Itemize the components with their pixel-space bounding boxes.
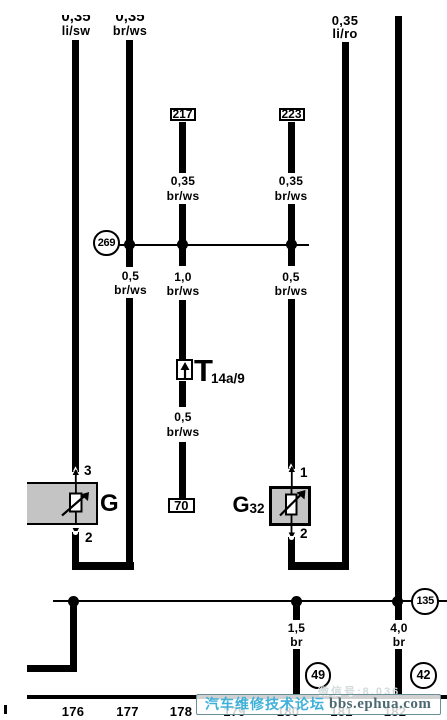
wire W1 li/sw vertical — [72, 40, 79, 472]
G32 pin 2 notch — [289, 536, 295, 541]
wire label 4,0 br — [373, 621, 425, 650]
terminal box 70 — [168, 498, 195, 513]
wire label 0,35 br/ws (W3) — [157, 174, 209, 203]
junction dot 1,5 br — [291, 596, 302, 607]
G32 pin 2 wire — [288, 537, 295, 570]
junction dot left — [68, 596, 79, 607]
G32 rheostat symbol — [271, 484, 313, 540]
wire label 0,5 br/ws (W4) — [265, 270, 317, 299]
G pin number 2 — [85, 531, 93, 545]
G pin 2 notch — [73, 531, 79, 536]
track number 179 — [215, 705, 255, 718]
G32 loop bottom bar — [288, 562, 349, 570]
wire W6 vertical upper — [395, 16, 402, 620]
track number 177 — [108, 705, 148, 718]
wire label 1,0 br/ws (W3) — [157, 270, 209, 299]
G32: pin 1 notch on W4 — [288, 463, 293, 468]
wire label 0,35 br/ws (W4) — [265, 174, 317, 203]
G pin 3 line+arrow — [70, 466, 82, 484]
wire W3 seg to T symbol — [179, 300, 186, 359]
wire W4 seg down to G32 pin 1 — [288, 299, 295, 469]
wire label 0,5 br/ws (below T) — [157, 410, 209, 439]
wire label 1,5 br — [271, 621, 323, 650]
L wire vertical — [70, 601, 77, 672]
track number 181 — [322, 705, 362, 718]
node circle 135 — [411, 588, 439, 616]
node circle 49 — [305, 662, 332, 689]
G32 pin number 2 — [300, 527, 308, 541]
junction dot 4,0 br — [392, 596, 403, 607]
wire label 0,35 li/sw (top, clipped) — [50, 9, 102, 24]
junction dot on W3 — [177, 239, 188, 250]
track number 182 — [375, 705, 415, 718]
G32 sensor box — [269, 486, 311, 526]
node circle 269 — [93, 230, 120, 257]
label T14a/9 — [194, 355, 213, 386]
wire W5 li/ro vertical — [342, 42, 349, 570]
G32 pin number 1 — [300, 466, 308, 480]
connector box 217 — [170, 108, 196, 122]
wire W3 seg through junction — [179, 204, 186, 266]
G32 pin 1 line+arrow — [286, 463, 298, 487]
G pin number 3 — [84, 464, 92, 478]
wire label 0,35 li/ro — [319, 14, 371, 41]
watermark box — [196, 694, 441, 715]
track number 178 — [161, 705, 201, 718]
G sensor box — [27, 482, 98, 525]
G label — [100, 492, 119, 516]
G sensor: pin 3 notch — [73, 466, 78, 471]
faint wechat text — [318, 683, 400, 699]
node circle 42 — [410, 662, 437, 689]
G rheostat symbol — [55, 480, 97, 527]
white clip over top labels — [40, 0, 170, 15]
wire W4 seg below box 223 — [288, 122, 295, 174]
G32 label — [233, 494, 250, 516]
wire W3 seg to box 70 — [179, 442, 186, 498]
connector symbol T14a/9 — [176, 359, 193, 380]
wire W2 br/ws vertical lower — [126, 298, 133, 570]
partial track digit at left edge — [4, 705, 7, 714]
junction dot on W2 — [124, 239, 135, 250]
wire label 0,35 br/ws (top, clipped) — [104, 9, 156, 24]
G32 pin 2 arrow — [286, 528, 298, 540]
wire W4 seg through junction — [288, 204, 295, 266]
G pin 2 wire — [72, 532, 79, 570]
wire 1,5 br lower seg — [293, 649, 300, 696]
horizontal bus line upper — [106, 244, 309, 247]
wire W2 br/ws vertical upper — [126, 40, 133, 267]
horizontal bus line lower — [53, 600, 447, 603]
wire W3 seg below T — [179, 381, 186, 407]
wire label 0,5 br/ws (W2) — [105, 269, 157, 298]
junction dot on W4 — [286, 239, 297, 250]
wire W3 seg below box 217 — [179, 122, 186, 174]
connector box 223 — [279, 108, 305, 122]
wire 1,5 br stub — [293, 601, 300, 620]
wire 4,0 br lower seg — [395, 649, 402, 696]
track number 180 — [268, 705, 308, 718]
L wire bottom bar — [27, 665, 78, 673]
track number 176 — [53, 705, 93, 718]
G loop bottom bar — [72, 562, 134, 570]
bottom border line — [27, 695, 447, 698]
G pin 2 arrow — [70, 524, 82, 536]
